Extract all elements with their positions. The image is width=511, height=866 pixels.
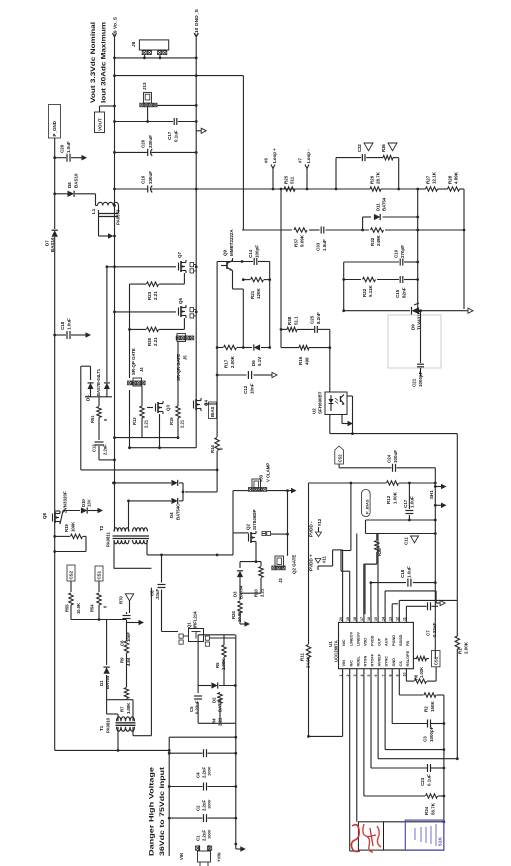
svg-text:10nF: 10nF	[126, 632, 131, 642]
svg-text:T1: T1	[99, 725, 104, 731]
svg-text:R1: R1	[458, 648, 463, 654]
wire opto emitter gnd	[342, 415, 353, 427]
wire U1 top risers	[318, 483, 457, 614]
svg-text:2.00K: 2.00K	[464, 641, 469, 654]
svg-text:C17: C17	[403, 499, 408, 508]
svg-text:C7: C7	[426, 630, 431, 636]
svg-text:2.21: 2.21	[218, 717, 223, 726]
svg-text:SFH690BT: SFH690BT	[318, 391, 323, 414]
node J10 GND_S	[194, 9, 200, 37]
svg-text:R15: R15	[169, 417, 174, 425]
text danger warning	[149, 766, 167, 856]
svg-text:U2: U2	[312, 408, 317, 414]
svg-text:PVDD +: PVDD +	[309, 554, 314, 571]
svg-text:C23: C23	[420, 777, 425, 786]
svg-text:1: 1	[339, 675, 343, 677]
capacitor C7 0.22uF	[426, 602, 438, 637]
svg-text:R10: R10	[254, 589, 259, 597]
svg-text:0.22uF: 0.22uF	[432, 623, 437, 637]
node CS1 tag left	[95, 566, 103, 592]
svg-text:7: 7	[381, 675, 385, 677]
svg-text:SS/SD: SS/SD	[399, 634, 403, 646]
svg-text:1000pF: 1000pF	[429, 726, 434, 742]
diode D4 BAT54C	[112, 480, 183, 520]
transistor Q3	[147, 401, 171, 449]
capacitor C8 10nF	[120, 616, 132, 647]
svg-text:12: 12	[396, 617, 400, 621]
svg-text:1000pF: 1000pF	[418, 371, 423, 387]
resistor R54 0	[90, 593, 108, 621]
connector J5 SR-QR GATE	[176, 334, 194, 381]
svg-text:P_BIAS: P_BIAS	[364, 499, 369, 514]
resistor R25 511	[284, 175, 296, 191]
svg-text:C18: C18	[60, 321, 65, 330]
capacitor C2 2.2uF	[168, 783, 236, 812]
svg-text:4.99K: 4.99K	[454, 171, 459, 184]
capacitor C33 1.5uF	[316, 227, 328, 252]
svg-text:17: 17	[360, 617, 364, 621]
capacitor C11 testpoint	[404, 536, 419, 545]
svg-text:SH1: SH1	[429, 490, 434, 499]
svg-text:10.0K: 10.0K	[76, 603, 81, 614]
svg-text:10: 10	[403, 673, 407, 677]
svg-text:Loop +: Loop +	[272, 148, 277, 163]
resistor R4 2.21	[212, 693, 223, 727]
resistor R22 5.11K	[344, 277, 418, 297]
svg-text:Q2 GATE: Q2 GATE	[292, 555, 297, 574]
svg-text:C25: C25	[310, 315, 315, 324]
svg-text:51.1: 51.1	[294, 316, 299, 325]
svg-text:4: 4	[360, 675, 364, 677]
inductor L1 PA0373	[91, 202, 121, 239]
svg-text:J4: J4	[139, 367, 144, 372]
svg-text:R2: R2	[424, 706, 429, 712]
resistor R2 150K	[424, 693, 437, 712]
svg-text:L1: L1	[91, 208, 96, 214]
svg-text:8.2nF: 8.2nF	[316, 312, 321, 324]
svg-text:5.1V: 5.1V	[257, 357, 262, 366]
svg-text:BAT54C: BAT54C	[176, 504, 181, 520]
diode D1 BAT54	[99, 667, 110, 689]
resistor R17 2.00K	[217, 345, 270, 368]
capacitor C22	[336, 143, 399, 189]
svg-text:2.21: 2.21	[260, 588, 265, 597]
svg-text:D11: D11	[376, 203, 381, 211]
capacitor C21 1000pF	[412, 311, 425, 387]
svg-text:100uF: 100uF	[393, 450, 398, 463]
svg-text:Q4: Q4	[204, 400, 209, 406]
svg-text:CS1: CS1	[433, 656, 438, 665]
svg-text:AUX: AUX	[385, 638, 389, 646]
capacitor C10 270pF	[344, 245, 418, 266]
svg-text:6: 6	[374, 675, 378, 677]
svg-text:1.00K: 1.00K	[126, 702, 131, 714]
svg-text:ZVN3320F: ZVN3320F	[63, 491, 68, 513]
svg-text:CS: CS	[399, 661, 403, 667]
capacitor C6 .33uF	[150, 585, 166, 601]
svg-text:0.1uF: 0.1uF	[427, 774, 432, 786]
wire startup box	[198, 635, 237, 724]
wire vclamp line	[233, 488, 297, 556]
svg-text:R5: R5	[215, 662, 220, 668]
capacitor C14 100pF	[248, 245, 260, 265]
wire VOUT rail	[113, 37, 198, 206]
diode D6 5.1V	[251, 344, 262, 366]
svg-text:2.21: 2.21	[180, 419, 185, 428]
resistor R20 2.21	[128, 318, 184, 448]
svg-text:C16: C16	[141, 175, 146, 184]
connector J13	[140, 82, 198, 121]
svg-text:R13: R13	[132, 417, 137, 425]
svg-text:R19: R19	[64, 524, 69, 532]
diode D5 BAS70-04LT1	[81, 265, 112, 470]
wire comp line	[342, 262, 473, 313]
capacitor C17 0.1uF	[113, 118, 198, 142]
svg-text:C11: C11	[404, 537, 409, 545]
svg-text:BAT54: BAT54	[105, 675, 110, 689]
wire Q9 collector line	[217, 260, 270, 263]
svg-text:R12: R12	[386, 495, 391, 504]
wire bias column	[182, 262, 272, 494]
resistor R16 499	[281, 345, 330, 365]
svg-text:13: 13	[388, 617, 392, 621]
connector J4 SR-QP GATE	[128, 348, 146, 386]
svg-text:330uF: 330uF	[148, 135, 153, 148]
transistor Q8 ZVN3320F	[42, 491, 80, 524]
svg-text:PGND: PGND	[392, 635, 396, 646]
svg-text:R26: R26	[370, 175, 375, 184]
capacitor C18a 1.0uF	[55, 318, 91, 339]
wire FB line	[330, 396, 458, 759]
svg-text:C8: C8	[120, 640, 125, 646]
capacitor C1 2.2uF	[168, 814, 236, 841]
svg-text:V CLAMP: V CLAMP	[266, 463, 271, 482]
node VOUT tag	[95, 105, 116, 133]
svg-text:0.1uF: 0.1uF	[174, 130, 179, 142]
svg-text:D5: D5	[86, 395, 91, 401]
svg-text:PA0810: PA0810	[106, 717, 111, 733]
capacitor C25 8.2nF	[310, 312, 322, 333]
resistor R51 0	[90, 407, 108, 441]
svg-text:#12: #12	[317, 518, 322, 526]
svg-text:5: 5	[367, 675, 371, 677]
node PVDD+ J11	[309, 554, 327, 571]
svg-text:1.5uF: 1.5uF	[322, 239, 327, 251]
svg-text:C6: C6	[150, 590, 155, 596]
svg-text:C4: C4	[196, 772, 201, 778]
wire sense line	[196, 188, 464, 191]
svg-text:5.11K: 5.11K	[368, 285, 373, 297]
svg-text:C21: C21	[412, 378, 417, 387]
svg-text:C12: C12	[243, 385, 248, 394]
svg-text:12.1K: 12.1K	[432, 171, 437, 184]
svg-text:2: 2	[346, 675, 350, 677]
shunt regulator D9 TLV431B	[411, 303, 422, 330]
wire gnd stub arrow	[196, 128, 206, 133]
svg-text:D1: D1	[99, 680, 104, 686]
svg-text:FB: FB	[406, 641, 410, 646]
svg-text:C15: C15	[395, 289, 400, 298]
svg-text:28.7K: 28.7K	[376, 171, 381, 184]
svg-text:100V: 100V	[207, 766, 212, 776]
svg-text:10nF: 10nF	[250, 383, 255, 394]
node J9 Vo_S	[113, 16, 119, 37]
svg-text:R55: R55	[65, 604, 70, 612]
resistor R9 4.64K	[120, 641, 132, 666]
svg-text:R11: R11	[300, 653, 305, 661]
svg-text:D10: D10	[81, 499, 86, 507]
svg-text:C24: C24	[387, 454, 392, 463]
svg-text:SR-QP GATE: SR-QP GATE	[131, 348, 136, 375]
resistor R7 1.00K	[120, 688, 132, 715]
svg-text:4.64: 4.64	[126, 657, 131, 666]
svg-text:MMBT2222A: MMBT2222A	[229, 229, 234, 256]
svg-text:U1: U1	[328, 641, 333, 647]
svg-text:PA0373: PA0373	[116, 209, 121, 225]
svg-text:+VIN: +VIN	[217, 852, 222, 862]
diode D8 BAS16	[55, 173, 98, 205]
svg-text:56.7K: 56.7K	[431, 802, 436, 815]
svg-text:120K: 120K	[256, 288, 261, 299]
svg-text:C3: C3	[423, 736, 428, 742]
node J7 Loop-	[298, 149, 312, 191]
transformer T2 PA0811	[99, 501, 151, 568]
resistor R12 1.00K	[309, 481, 437, 504]
svg-text:330uF: 330uF	[148, 171, 153, 184]
svg-text:13V: 13V	[87, 499, 92, 507]
capacitor C20 330uF	[113, 135, 198, 156]
svg-text:R21: R21	[250, 290, 255, 299]
wire fb column	[416, 189, 465, 311]
resistor R5 1.00K	[215, 645, 226, 670]
svg-text:1.00K: 1.00K	[393, 491, 398, 504]
svg-text:100K: 100K	[71, 521, 76, 532]
connector J8	[131, 40, 169, 59]
svg-text:R4: R4	[212, 718, 217, 724]
svg-text:1.0uF: 1.0uF	[407, 566, 412, 578]
resistor R27 12.1K	[426, 171, 438, 191]
svg-text:BAT54: BAT54	[382, 197, 387, 211]
resistor R24 10.0K	[231, 593, 250, 627]
svg-text:R32: R32	[370, 237, 375, 246]
svg-text:IRFL214: IRFL214	[193, 611, 198, 628]
svg-text:2.2uF: 2.2uF	[103, 444, 108, 455]
svg-text:C14: C14	[248, 249, 253, 258]
wire R37 line	[242, 229, 464, 231]
svg-text:C2: C2	[196, 805, 201, 811]
svg-text:<9 Vo_S: <9 Vo_S	[113, 16, 119, 36]
connector J10 V CLAMP	[249, 463, 271, 492]
svg-text:#6: #6	[264, 158, 269, 163]
svg-text:8: 8	[388, 675, 392, 677]
svg-text:Q2: Q2	[246, 524, 251, 530]
svg-text:J8: J8	[131, 41, 136, 47]
svg-text:OUT: OUT	[378, 637, 382, 646]
wire opto feed	[328, 329, 331, 392]
svg-text:N/C: N/C	[349, 660, 353, 667]
svg-text:Q7: Q7	[177, 252, 182, 258]
capacitor C3 1000pF	[423, 720, 435, 743]
svg-text:CS2: CS2	[337, 454, 342, 463]
svg-text:18: 18	[353, 617, 357, 621]
svg-text:Danger High Voltage: Danger High Voltage	[149, 766, 156, 856]
wire gray box	[388, 315, 441, 368]
transistor Q9 MMBT2222A	[221, 229, 243, 348]
wire bias box	[71, 612, 144, 700]
svg-text:82nF: 82nF	[402, 287, 407, 298]
svg-text:R36: R36	[381, 144, 386, 152]
node CS1 tag	[432, 651, 441, 667]
svg-text:19: 19	[346, 617, 350, 621]
svg-text:BAS16: BAS16	[74, 173, 79, 188]
svg-text:C1: C1	[196, 835, 201, 841]
capacitor C15 82nF	[395, 276, 407, 298]
capacitor C17b 1.0uF	[403, 483, 415, 520]
svg-text:D6: D6	[251, 360, 256, 366]
svg-text:9.09K: 9.09K	[300, 234, 305, 247]
svg-text:RTOFF: RTOFF	[371, 653, 375, 666]
svg-text:Q3: Q3	[166, 405, 171, 411]
resistor R15 2.21	[169, 342, 185, 440]
svg-text:Q9: Q9	[223, 250, 228, 256]
capacitor C26 1.0uF	[55, 141, 87, 162]
svg-text:R9: R9	[120, 657, 125, 663]
capacitor C12 10nF	[217, 371, 277, 394]
svg-text:Iout 30Adc Maximum: Iout 30Adc Maximum	[101, 21, 108, 103]
resistor R38 51.1	[280, 189, 330, 348]
svg-text:R28: R28	[448, 175, 453, 184]
svg-text:270pF: 270pF	[400, 245, 405, 258]
svg-text:20: 20	[339, 617, 343, 621]
svg-text:11: 11	[403, 617, 407, 621]
node CS2 tag left	[67, 565, 75, 592]
svg-text:499: 499	[305, 357, 310, 365]
resistor R37 9.09K	[294, 228, 308, 247]
op-amp U1 UCC2897A	[328, 614, 413, 677]
svg-text:16: 16	[367, 617, 371, 621]
svg-text:R16: R16	[298, 356, 303, 365]
svg-text:R34: R34	[424, 806, 429, 815]
svg-text:2.00K: 2.00K	[230, 355, 235, 368]
svg-text:BAS7B-04LT1: BAS7B-04LT1	[96, 368, 101, 396]
resistor R28 4.99K	[448, 171, 460, 191]
resistor R11 24.9K	[300, 483, 311, 736]
wire pvdd rows	[366, 519, 437, 535]
resistor R1 2.00K	[455, 636, 468, 654]
svg-text:100pF: 100pF	[255, 245, 260, 258]
svg-text:R6: R6	[414, 674, 419, 680]
svg-text:D9: D9	[411, 324, 416, 330]
resistor R36	[381, 143, 397, 160]
svg-text:BAT54: BAT54	[239, 585, 244, 599]
svg-text:Vout 3.3Vdc Nominal: Vout 3.3Vdc Nominal	[90, 22, 97, 103]
svg-text:249K: 249K	[376, 235, 381, 246]
capacitor C16 330uF	[113, 171, 198, 193]
svg-text:D2: D2	[212, 697, 217, 703]
wire sense top	[113, 74, 243, 230]
svg-text:R51: R51	[90, 415, 95, 423]
resistor R34 56.7K	[424, 794, 438, 815]
svg-text:C22: C22	[357, 144, 362, 152]
svg-text:T2: T2	[99, 525, 104, 531]
diode D11 BAT54	[361, 197, 418, 231]
resistor R21 120K	[242, 277, 271, 299]
capacitor C18 1.0uF	[371, 566, 437, 587]
wire SR bottom lines	[81, 438, 217, 470]
svg-text:AVREF: AVREF	[378, 653, 382, 666]
svg-text:R23: R23	[147, 291, 152, 300]
resistor R55 10.0K	[65, 593, 82, 620]
svg-text:J5: J5	[183, 355, 188, 360]
resistor R26 28.7K	[370, 171, 382, 191]
resistor R6 1.02K	[414, 656, 430, 683]
resistor R29 0	[365, 534, 382, 615]
svg-text:100V: 100V	[207, 829, 212, 839]
transistor Q6	[115, 298, 197, 318]
svg-text:2.21: 2.21	[144, 419, 149, 428]
node BIAS tag	[209, 402, 217, 419]
svg-text:<10 GND_S: <10 GND_S	[194, 9, 200, 36]
svg-text:RTON: RTON	[364, 656, 368, 667]
svg-text:150K: 150K	[430, 701, 435, 712]
node P_BIAS tag	[362, 490, 371, 517]
svg-text:C18: C18	[400, 569, 405, 578]
svg-text:R27: R27	[426, 175, 431, 184]
svg-text:RSLOPE: RSLOPE	[406, 650, 410, 666]
diode D10 13V	[81, 499, 103, 514]
svg-text:1.0uF: 1.0uF	[67, 318, 72, 330]
connector J3 Q2 GATE	[272, 555, 297, 583]
svg-text:Q6: Q6	[178, 298, 183, 304]
transformer T1 PA0810	[99, 588, 151, 752]
svg-text:3: 3	[353, 675, 357, 677]
svg-text:J13: J13	[142, 82, 147, 90]
svg-text:PA0811: PA0811	[106, 532, 111, 547]
resistor R32 249K	[370, 228, 384, 246]
svg-text:Q1: Q1	[187, 622, 192, 628]
node PVDD- J12	[309, 518, 323, 537]
svg-text:R54: R54	[90, 604, 95, 612]
svg-text:C17: C17	[167, 131, 172, 140]
svg-text:2.21: 2.21	[153, 291, 158, 300]
resistor R14 0	[210, 438, 224, 454]
svg-text:9: 9	[396, 675, 400, 677]
transistor Q7	[107, 252, 196, 273]
resistor R19 100K	[55, 521, 86, 552]
svg-text:Loop -: Loop -	[306, 149, 311, 163]
svg-text:#7: #7	[298, 158, 303, 163]
svg-text:1.0uF: 1.0uF	[410, 496, 415, 508]
transistor Q2 SI7846DP	[233, 510, 289, 563]
svg-text:VDD: VDD	[364, 638, 368, 646]
svg-text:0.22uF: 0.22uF	[195, 700, 200, 714]
svg-text:36Vdc to 75Vdc Input: 36Vdc to 75Vdc Input	[159, 766, 166, 856]
svg-text:R17: R17	[224, 359, 229, 368]
transistor Q4	[194, 398, 218, 411]
svg-text:1.0uF: 1.0uF	[66, 141, 71, 153]
svg-text:N/C: N/C	[342, 639, 346, 646]
svg-text:100V: 100V	[207, 799, 212, 809]
capacitor C23 0.1uF	[420, 764, 432, 786]
resistor R10 2.21	[240, 562, 265, 597]
optocoupler U2 SFH690BT	[312, 391, 348, 414]
svg-text:R37: R37	[294, 238, 299, 247]
svg-text:CS2: CS2	[69, 570, 74, 579]
svg-text:SI7846DP: SI7846DP	[252, 510, 257, 530]
node SH1	[429, 484, 447, 508]
node P_GND tag	[49, 105, 61, 139]
svg-text:R14: R14	[210, 445, 215, 453]
